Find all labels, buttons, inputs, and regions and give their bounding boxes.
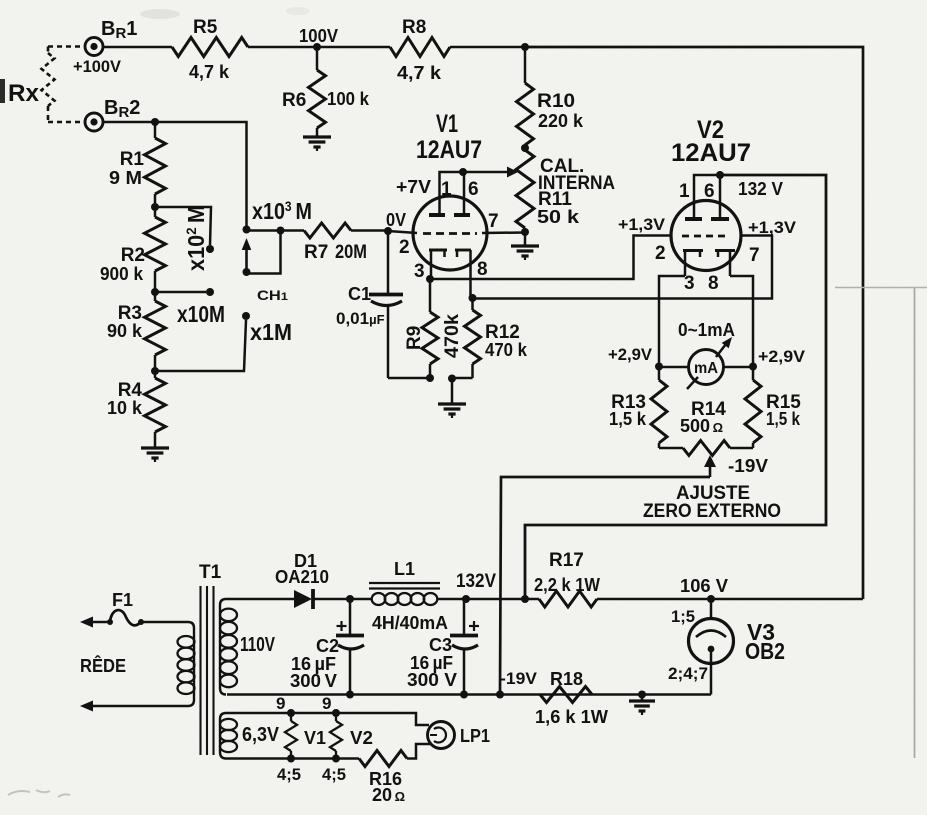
node 0V (V1 grid) bbox=[384, 227, 392, 235]
svg-text:2: 2 bbox=[655, 243, 666, 264]
switch CH1 pole bbox=[243, 268, 251, 276]
wire meter right bbox=[724, 366, 754, 369]
tube V1 envelope bbox=[413, 196, 487, 270]
svg-text:8: 8 bbox=[708, 273, 719, 294]
V2 heater bbox=[335, 713, 337, 721]
svg-text:7: 7 bbox=[488, 211, 499, 232]
wire D1 to C2 node bbox=[313, 598, 350, 601]
potentiometer R14 bbox=[659, 447, 683, 450]
svg-text:R6: R6 bbox=[282, 90, 306, 111]
wire R7 to 0V node bbox=[351, 229, 388, 232]
wire V1 pin3 to V2 grid (pin2) bbox=[430, 236, 671, 280]
resistor R10 bbox=[517, 83, 534, 145]
capacitor C3 16uF 300V bbox=[463, 599, 466, 634]
R14 wiper arrow bbox=[704, 455, 716, 467]
resistor R4 bbox=[145, 378, 166, 432]
V1 plate leads and top connector bbox=[440, 172, 465, 215]
svg-text:2: 2 bbox=[399, 237, 410, 258]
T1 secondary 110V vertical bbox=[220, 599, 226, 695]
svg-text:0,01µF: 0,01µF bbox=[336, 309, 385, 328]
svg-text:100V: 100V bbox=[299, 26, 338, 46]
node heater V1 top bbox=[287, 709, 295, 717]
wire top rail to right edge and down to 106V bbox=[525, 47, 863, 599]
svg-text:2,2 k 1W: 2,2 k 1W bbox=[534, 575, 600, 595]
tube V3 envelope bbox=[689, 619, 734, 664]
svg-text:4,7 k: 4,7 k bbox=[189, 62, 230, 82]
svg-text:4;5: 4;5 bbox=[277, 765, 301, 784]
node C2/L1 bbox=[346, 595, 354, 603]
svg-text:9: 9 bbox=[322, 694, 331, 713]
T1 secondary 110V loops bbox=[220, 609, 237, 622]
node V2 plates bbox=[716, 171, 724, 179]
capacitor C1 0,01uF bbox=[369, 293, 403, 297]
svg-text:1: 1 bbox=[679, 181, 690, 202]
node V2 plate feed tap bbox=[521, 595, 529, 603]
fuse F1 bbox=[107, 619, 113, 625]
wire 100V node to R8 bbox=[317, 46, 390, 49]
svg-text:V1: V1 bbox=[436, 110, 458, 138]
wire R16 to lamp bbox=[407, 744, 430, 759]
wire tap R3/R4 to contact x1M bbox=[155, 320, 246, 371]
node C3 bottom bbox=[460, 691, 468, 699]
svg-text:470k: 470k bbox=[442, 314, 463, 358]
wire R11 bottom to ground bbox=[524, 232, 527, 246]
svg-text:132V: 132V bbox=[456, 571, 496, 592]
V3 anode arc bbox=[696, 631, 726, 638]
svg-text:4H/40mA: 4H/40mA bbox=[372, 613, 448, 633]
node R11 bottom bbox=[521, 228, 529, 236]
svg-text:470 k: 470 k bbox=[485, 340, 528, 360]
wire contact to R7 bbox=[247, 229, 305, 232]
wire pole to R7 line bbox=[247, 231, 281, 274]
node R10/R11 bbox=[521, 144, 529, 152]
svg-text:R5: R5 bbox=[193, 17, 218, 38]
diode D1 OA210 bbox=[294, 590, 312, 608]
scan fold vertical line bbox=[914, 288, 916, 758]
svg-text:-19V: -19V bbox=[728, 456, 768, 476]
inductor L1 bbox=[350, 598, 372, 601]
junction pole/R7 bbox=[277, 227, 285, 235]
svg-text:V2: V2 bbox=[350, 728, 373, 748]
svg-text:1,5 k: 1,5 k bbox=[609, 409, 647, 429]
svg-text:F1: F1 bbox=[112, 590, 133, 610]
svg-text:100 k: 100 k bbox=[327, 89, 370, 109]
svg-text:+100V: +100V bbox=[73, 57, 122, 76]
wire dashed Rx to BR2 bbox=[47, 106, 50, 122]
wire V2 pin8 to meter right bbox=[730, 276, 753, 366]
node 106V bbox=[707, 595, 715, 603]
svg-text:x103 M: x103 M bbox=[252, 198, 312, 224]
resistor R3 bbox=[145, 301, 166, 355]
svg-text:3: 3 bbox=[414, 261, 425, 282]
svg-text:+1,3V: +1,3V bbox=[618, 215, 666, 234]
wire V1 plate to R11 wiper arrow bbox=[464, 171, 507, 174]
node BR2/R1 bbox=[151, 118, 159, 126]
wire wiper to -19V rail bbox=[500, 477, 710, 695]
scan fold horizontal line bbox=[835, 287, 927, 289]
terminal BR2 (input jack) bbox=[85, 113, 103, 131]
svg-text:12AU7: 12AU7 bbox=[416, 136, 482, 164]
svg-text:1,5 k: 1,5 k bbox=[766, 409, 801, 429]
wire R6 to ground bbox=[316, 128, 319, 137]
V1 heater bbox=[290, 713, 292, 721]
resistor R5 bbox=[172, 38, 248, 57]
svg-text:220 k: 220 k bbox=[538, 111, 584, 131]
T1 6,3V winding vertical bbox=[220, 713, 226, 759]
resistor R17 bbox=[539, 591, 597, 607]
left edge scan mark bbox=[0, 79, 5, 103]
svg-text:R10: R10 bbox=[537, 91, 575, 112]
wire BR1 to R5 bbox=[103, 46, 172, 49]
wire primary bottom to arrow bbox=[92, 705, 188, 708]
svg-text:R9: R9 bbox=[404, 326, 425, 350]
resistor R13 bbox=[651, 380, 667, 443]
node wiper line bbox=[496, 691, 504, 699]
node R3/R4 bbox=[151, 367, 159, 375]
node R2/R3 bbox=[151, 288, 159, 296]
wire 100V node down to R6 bbox=[316, 47, 319, 70]
V1 cathode right bbox=[455, 249, 471, 252]
node meter left +2,9V bbox=[655, 363, 663, 371]
svg-text:1;5: 1;5 bbox=[671, 607, 695, 626]
svg-text:+2,9V: +2,9V bbox=[608, 345, 653, 364]
node C2 bottom bbox=[346, 691, 354, 699]
node R1/R2 bbox=[151, 203, 159, 211]
svg-text:R2: R2 bbox=[121, 245, 145, 266]
T1 core bbox=[199, 586, 201, 755]
tube V2 envelope bbox=[671, 201, 741, 271]
wire to ground (R9/R12) bbox=[451, 378, 454, 404]
resistor R8 bbox=[390, 38, 450, 57]
node heater V1 bottom bbox=[287, 755, 295, 763]
V1 grid dashes bbox=[423, 232, 477, 235]
pencil marks bottom left bbox=[8, 790, 70, 797]
terminal BR1 (+100V input jack) bbox=[85, 38, 103, 56]
mains arrow bottom bbox=[80, 701, 93, 712]
svg-text:+2,9V: +2,9V bbox=[758, 347, 806, 366]
node R9/R12 ground bbox=[448, 375, 456, 383]
wire C1 to R9 bottom bbox=[388, 377, 430, 380]
wire secondary to D1 bbox=[226, 598, 294, 601]
V2 grid dashes bbox=[682, 235, 730, 238]
node ground -19V rail bbox=[638, 691, 646, 699]
wire R5 to 100V node bbox=[248, 46, 317, 49]
svg-text:RÊDE: RÊDE bbox=[80, 655, 126, 676]
svg-text:OB2: OB2 bbox=[745, 638, 785, 664]
svg-text:R7: R7 bbox=[304, 242, 328, 263]
switch CH1 wiper arrow bbox=[242, 238, 252, 250]
V2 cathode left bbox=[683, 249, 703, 252]
ground below R9/R12 bbox=[438, 402, 466, 405]
resistor Rx (external, dashed) bbox=[42, 53, 55, 106]
svg-text:L1: L1 bbox=[394, 559, 415, 579]
svg-text:4,7 k: 4,7 k bbox=[397, 63, 442, 83]
resistor R1 bbox=[154, 122, 157, 138]
wire ground stem bbox=[641, 695, 644, 702]
svg-text:900 k: 900 k bbox=[100, 264, 144, 284]
node V1 pin8/R12 bbox=[469, 294, 477, 302]
wire F1 to primary bbox=[141, 621, 188, 624]
svg-text:0~1mA: 0~1mA bbox=[678, 320, 735, 340]
wire node to R10 bbox=[524, 47, 527, 83]
svg-text:8: 8 bbox=[477, 259, 488, 280]
T1 primary vertical bbox=[188, 622, 194, 706]
svg-text:6: 6 bbox=[468, 179, 479, 200]
svg-text:-19V: -19V bbox=[500, 669, 538, 688]
wire 106V to right rail bbox=[711, 598, 863, 601]
wire BR2 to divider bbox=[103, 121, 155, 124]
svg-text:R1: R1 bbox=[120, 149, 145, 170]
resistor R7 bbox=[304, 223, 351, 238]
resistor R12 bbox=[471, 298, 474, 310]
wire V1 pin8 to V2 grid (pin7) bbox=[473, 236, 773, 299]
inductor L1 core bbox=[369, 582, 440, 584]
contact x10M bbox=[206, 288, 214, 296]
svg-text:LP1: LP1 bbox=[460, 726, 490, 746]
node heater V2 bottom bbox=[332, 755, 340, 763]
svg-text:ZERO EXTERNO: ZERO EXTERNO bbox=[643, 501, 781, 522]
svg-text:300 V: 300 V bbox=[290, 671, 337, 691]
svg-text:7: 7 bbox=[749, 245, 760, 266]
wire tap R2/R3 to contact x10M bbox=[155, 291, 206, 294]
wire R17 to 106V node bbox=[597, 598, 711, 601]
V2 plate leads and top connector bbox=[694, 175, 720, 219]
svg-text:R18: R18 bbox=[550, 669, 583, 689]
svg-text:C1: C1 bbox=[348, 284, 371, 304]
wire BR2 node to switch contact x10^3M bbox=[155, 122, 247, 227]
capacitor C2 16uF 300V bbox=[349, 599, 352, 634]
node R8/R10/right rail bbox=[521, 43, 529, 51]
svg-text:C3: C3 bbox=[429, 635, 452, 655]
node V1 pin3/R9 bbox=[426, 275, 434, 283]
wire dashed BR1 to Rx bbox=[48, 45, 85, 48]
svg-text:C2: C2 bbox=[316, 636, 339, 656]
svg-text:x1M: x1M bbox=[250, 319, 292, 345]
lamp LP1 bbox=[428, 722, 455, 749]
svg-text:T1: T1 bbox=[199, 562, 222, 583]
potentiometer R11 bbox=[516, 150, 534, 228]
node meter right +2,9V bbox=[749, 363, 757, 371]
svg-text:50 k: 50 k bbox=[537, 207, 580, 227]
wire 106V to V3 bbox=[710, 599, 713, 619]
resistor R16 bbox=[359, 751, 407, 767]
svg-text:V1: V1 bbox=[304, 728, 326, 748]
wire tap R1/R2 to contact x10^2M bbox=[155, 207, 211, 245]
node V1 plates bbox=[459, 168, 467, 176]
svg-text:Rx: Rx bbox=[8, 80, 40, 107]
node 132V bbox=[462, 595, 470, 603]
ground below R4 bbox=[141, 446, 169, 449]
fuse F1 arrow bbox=[80, 617, 93, 628]
svg-text:x10M: x10M bbox=[177, 301, 225, 327]
svg-text:1,6 k 1W: 1,6 k 1W bbox=[535, 707, 608, 727]
wire meter left bbox=[659, 366, 689, 369]
svg-text:110V: 110V bbox=[240, 634, 276, 656]
V2 cathode right bbox=[715, 249, 735, 252]
svg-text:106 V: 106 V bbox=[680, 576, 728, 596]
svg-text:x102 M: x102 M bbox=[183, 205, 209, 271]
T1 primary winding loops bbox=[178, 636, 195, 648]
svg-text:OA210: OA210 bbox=[275, 567, 329, 587]
ground on -19V rail bbox=[629, 699, 655, 702]
svg-text:3: 3 bbox=[684, 273, 695, 294]
svg-text:R17: R17 bbox=[549, 550, 584, 571]
V1 cathode left bbox=[429, 249, 447, 252]
node R9 bottom bbox=[426, 374, 434, 382]
svg-text:+1,3V: +1,3V bbox=[748, 218, 797, 237]
svg-text:12AU7: 12AU7 bbox=[671, 139, 751, 167]
contact x10^3M bbox=[243, 226, 251, 234]
V1 plate bars bbox=[429, 213, 445, 217]
scan smudge near BR1 bbox=[140, 9, 180, 19]
contact x10^2M bbox=[206, 245, 214, 253]
resistor R15 bbox=[745, 380, 761, 443]
svg-text:4;5: 4;5 bbox=[322, 765, 346, 784]
ground below R11 bbox=[511, 244, 539, 247]
svg-text:6: 6 bbox=[704, 181, 715, 202]
svg-text:6,3V: 6,3V bbox=[242, 724, 280, 746]
svg-text:1: 1 bbox=[441, 179, 452, 200]
wire V1 grid to 0V node bbox=[388, 231, 417, 233]
node 100V bbox=[313, 43, 321, 51]
wire 132V node to R17 bbox=[466, 598, 539, 601]
svg-text:9: 9 bbox=[276, 694, 285, 713]
heater bottom rail bbox=[226, 757, 359, 760]
wire V2 plate to 132V feed bbox=[525, 175, 826, 599]
V3 cathode dot bbox=[708, 646, 715, 653]
svg-text:R8: R8 bbox=[402, 17, 426, 38]
svg-text:10 k: 10 k bbox=[107, 398, 143, 418]
node heater V2 top bbox=[332, 709, 340, 717]
heater top rail bbox=[226, 713, 429, 725]
V2 plate bars bbox=[685, 217, 702, 221]
meter mA bbox=[689, 350, 724, 385]
wire V3 to -19V rail bbox=[710, 651, 713, 695]
wire V2 pin3 to meter left bbox=[659, 276, 685, 366]
meter needle bbox=[716, 344, 726, 357]
contact x1M bbox=[242, 312, 250, 320]
resistor R9 bbox=[429, 279, 432, 312]
svg-text:2;4;7: 2;4;7 bbox=[668, 664, 708, 683]
ground below R6 bbox=[303, 135, 331, 138]
wire 0V node to C1 bbox=[387, 231, 390, 293]
svg-text:90 k: 90 k bbox=[107, 321, 143, 341]
svg-text:9 M: 9 M bbox=[109, 168, 142, 188]
svg-text:mA: mA bbox=[694, 360, 718, 377]
svg-text:20M: 20M bbox=[335, 242, 367, 263]
svg-text:0V: 0V bbox=[386, 210, 406, 230]
resistor R2 bbox=[145, 217, 166, 271]
resistor R6 bbox=[309, 70, 326, 128]
T1 6,3V loops bbox=[220, 719, 237, 730]
svg-text:+7V: +7V bbox=[396, 177, 431, 197]
wire R8 to R10 node bbox=[450, 46, 525, 49]
wire -19V rail bbox=[227, 693, 711, 696]
svg-text:132 V: 132 V bbox=[738, 179, 783, 199]
wire V1 pin7 to R11 bottom bbox=[482, 231, 525, 234]
svg-text:300 V: 300 V bbox=[407, 670, 457, 690]
resistor R18 bbox=[540, 687, 592, 703]
